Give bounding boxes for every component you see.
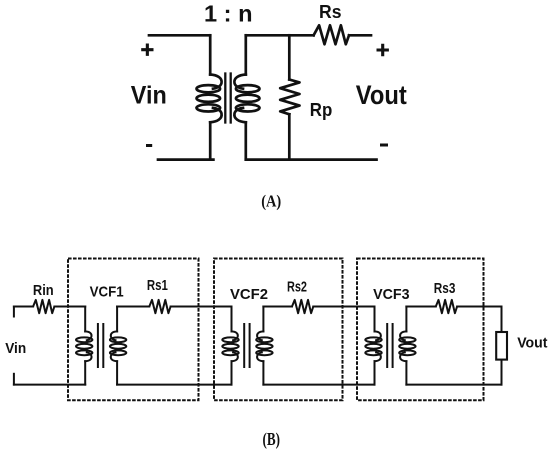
svg-text:(B): (B): [263, 429, 281, 449]
plus sign right (A): [377, 44, 389, 56]
dashed box stage 2: [214, 259, 343, 401]
svg-text:Vin: Vin: [5, 341, 26, 357]
svg-text:Rp: Rp: [310, 100, 333, 120]
plus sign left (A): [141, 44, 153, 56]
minus sign left (A): [146, 144, 152, 147]
svg-text:Vout: Vout: [356, 80, 407, 110]
resistor Rs3: [436, 300, 457, 313]
resistor Rs: [314, 25, 349, 44]
resistor Rin: [33, 300, 54, 313]
svg-text:VCF2: VCF2: [230, 286, 268, 303]
svg-text:1 : n: 1 : n: [204, 1, 253, 27]
wire Rin to T1 primary: [54, 306, 85, 308]
wire output branch lower: [501, 361, 503, 385]
svg-text:Rs: Rs: [319, 2, 342, 22]
transformer VCF1: [76, 307, 126, 385]
resistor Rs2: [292, 300, 313, 313]
svg-text:Vin: Vin: [131, 82, 167, 110]
input terminal stub bottom: [13, 374, 15, 385]
transformer T1A primary winding: [197, 75, 222, 123]
transformer T1A core: [225, 74, 230, 123]
wire secondary right vertical upper: [244, 35, 247, 74]
svg-text:Vout: Vout: [517, 335, 547, 352]
svg-text:Rs2: Rs2: [287, 278, 307, 295]
load resistor Vout (rectangle): [496, 332, 507, 360]
wire input bottom: [14, 384, 85, 386]
wire Rs2 to T3 primary: [313, 306, 374, 308]
wire T1 secondary top to Rs1: [117, 306, 149, 308]
wire input top to Rin: [14, 306, 33, 308]
svg-text:Rin: Rin: [33, 283, 54, 299]
svg-text:(A): (A): [261, 191, 281, 210]
wire T2 secondary top to Rs2: [263, 306, 292, 308]
svg-text:Rs1: Rs1: [147, 277, 168, 294]
wire T3 secondary top to Rs3: [406, 306, 435, 308]
wire bottom-right (circuit A secondary bottom): [246, 158, 377, 161]
wire stage3 bottom: [406, 384, 501, 386]
resistor Rs1: [149, 300, 170, 313]
resistor Rp: [280, 80, 299, 115]
wire secondary right vertical lower: [244, 122, 247, 159]
wire top-left (circuit A primary top): [149, 34, 210, 37]
transformer VCF3: [365, 307, 415, 385]
wire secondary top to Rs: [246, 34, 314, 37]
svg-text:VCF3: VCF3: [373, 286, 409, 303]
wire stage1 bottom: [117, 384, 231, 386]
wire primary left vertical upper: [209, 35, 212, 74]
input terminal stub top: [13, 307, 15, 317]
transformer VCF2: [222, 307, 272, 385]
svg-text:VCF1: VCF1: [90, 284, 124, 301]
minus sign right (A): [380, 144, 388, 147]
dashed box stage 3: [357, 259, 484, 401]
transformer T1A secondary winding: [234, 75, 259, 123]
svg-text:Rs3: Rs3: [434, 280, 456, 297]
wire Rp top vertical: [288, 35, 291, 79]
wire output branch upper: [501, 307, 503, 332]
wire stage2 bottom: [263, 384, 374, 386]
wire Rp bottom vertical: [288, 114, 291, 159]
wire Rs1 to T2 primary: [171, 306, 232, 308]
dashed box stage 1: [68, 259, 199, 401]
wire Rs3 to output branch: [457, 306, 501, 308]
wire bottom-left (circuit A primary bottom): [158, 158, 213, 161]
wire Rs to + terminal: [349, 34, 371, 37]
wire primary left vertical lower: [209, 122, 212, 159]
